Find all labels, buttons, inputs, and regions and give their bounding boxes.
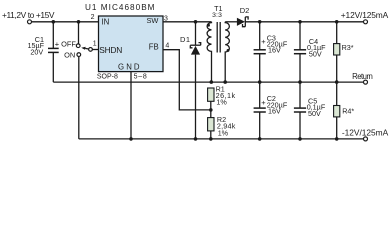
- node C4/C5 mid: [298, 80, 302, 84]
- svg-text:SW: SW: [146, 16, 158, 25]
- terminal -12V/125mA: [364, 137, 368, 141]
- svg-text:GND: GND: [118, 62, 140, 71]
- svg-text:16V: 16V: [268, 106, 281, 115]
- capacitor C2: [259, 82, 261, 108]
- node C4 top: [298, 20, 302, 24]
- wire GND pin drop: [130, 72, 132, 139]
- svg-text:SOP-8: SOP-8: [97, 73, 118, 80]
- svg-text:50V: 50V: [309, 50, 322, 59]
- svg-text:OFF: OFF: [61, 39, 76, 48]
- diode D1 schottky: [195, 22, 197, 45]
- switch S1 arm arrow: [85, 47, 88, 50]
- svg-text:IN: IN: [102, 17, 110, 26]
- wire SW output: [163, 21, 212, 23]
- svg-text:2: 2: [91, 14, 95, 21]
- switch S1 common contact: [89, 48, 93, 52]
- wire OFF drop: [78, 22, 80, 44]
- wire input top rail: [32, 21, 99, 23]
- node R3 top: [335, 20, 339, 24]
- svg-text:FB: FB: [149, 43, 159, 52]
- switch S1 OFF contact: [76, 44, 80, 48]
- svg-text:20V: 20V: [30, 47, 43, 56]
- node C3 top: [258, 20, 262, 24]
- svg-text:R4*: R4*: [342, 106, 354, 115]
- svg-text:SHDN: SHDN: [99, 45, 122, 55]
- svg-text:50V: 50V: [308, 109, 321, 118]
- svg-text:+: +: [261, 37, 266, 46]
- capacitor C1: [52, 22, 54, 48]
- node R3/R4 mid: [335, 80, 339, 84]
- terminal +12V/125mA: [364, 20, 368, 24]
- resistor R3: [336, 22, 338, 44]
- svg-text:+11,2V to +15V: +11,2V to +15V: [2, 10, 55, 20]
- svg-text:+: +: [55, 39, 60, 48]
- node T1 primary bottom junction: [210, 80, 214, 84]
- svg-text:D1: D1: [180, 35, 190, 44]
- wire SHDN pin 1: [92, 49, 98, 51]
- wire ON drop to bottom rail: [78, 57, 80, 139]
- node D1 bottom junction: [194, 137, 198, 141]
- resistor R4: [336, 82, 338, 105]
- svg-text:3:3: 3:3: [212, 12, 222, 19]
- node C5 bottom: [298, 137, 302, 141]
- svg-text:4: 4: [165, 43, 169, 50]
- svg-text:+: +: [261, 98, 266, 107]
- T1 secondary polarity dot: [227, 49, 230, 52]
- node T1 secondary bottom junction: [223, 80, 227, 84]
- node C1 top junction: [52, 20, 56, 24]
- input terminal +11,2V to +15V: [28, 20, 32, 24]
- diode D2 schottky: [237, 18, 245, 26]
- node R4 bottom: [335, 137, 339, 141]
- svg-text:D2: D2: [240, 6, 250, 15]
- node FB divider junction: [209, 108, 213, 112]
- node C2/C3 mid: [258, 80, 262, 84]
- svg-text:1%: 1%: [218, 128, 229, 137]
- mid ground rail: [53, 81, 363, 83]
- T1 secondary winding: [225, 22, 229, 82]
- T1 primary winding: [207, 22, 211, 82]
- svg-text:U1 MIC4680BM: U1 MIC4680BM: [85, 3, 155, 12]
- svg-text:+12V/125mA: +12V/125mA: [341, 10, 389, 20]
- wire R1 leads: [210, 101, 212, 117]
- svg-text:5–8: 5–8: [134, 73, 147, 80]
- T1 core: [216, 22, 218, 53]
- svg-text:R3*: R3*: [342, 43, 354, 52]
- capacitor C3: [259, 22, 261, 50]
- switch S1 ON contact: [77, 53, 81, 57]
- resistor R2: [208, 118, 214, 131]
- resistor R1: [208, 88, 214, 101]
- svg-text:ON: ON: [64, 51, 75, 60]
- terminal Return: [364, 80, 368, 84]
- wire output +12V rail: [245, 21, 363, 23]
- bottom -12V rail: [79, 138, 364, 140]
- capacitor C4: [299, 22, 301, 50]
- svg-text:16V: 16V: [268, 46, 281, 55]
- svg-text:1%: 1%: [216, 98, 227, 107]
- node D1 top junction: [194, 20, 198, 24]
- svg-text:Return: Return: [352, 72, 373, 81]
- wire FB to divider: [163, 50, 211, 110]
- svg-text:-12V/125mA: -12V/125mA: [342, 128, 389, 138]
- T1 primary polarity dot: [207, 24, 210, 27]
- capacitor C5: [299, 82, 301, 108]
- node C2 bottom: [258, 137, 262, 141]
- node OFF junction: [77, 20, 81, 24]
- op IC U1 MIC4680BM body: [99, 16, 164, 72]
- svg-text:1: 1: [93, 41, 97, 48]
- wire secondary to D2: [225, 21, 237, 23]
